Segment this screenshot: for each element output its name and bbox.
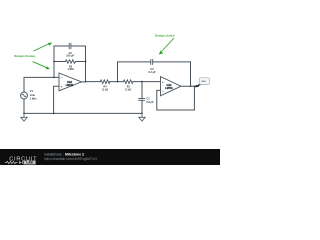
annotation arrow to C2 bbox=[34, 44, 49, 51]
capacitor C3 (top loop) bbox=[151, 59, 153, 65]
node OA2 output at bottom loop bbox=[194, 85, 196, 87]
svg-text:11 kΩ: 11 kΩ bbox=[125, 90, 131, 92]
resistor R3 bbox=[123, 80, 133, 84]
label R4 value bbox=[102, 85, 108, 91]
wire chain OA1 output to OA2 input bbox=[86, 81, 161, 83]
node feedback resistor left bbox=[53, 61, 55, 63]
svg-text:100 µF: 100 µF bbox=[66, 55, 74, 58]
wire feedback top (capacitor branch) bbox=[54, 45, 86, 47]
voltage source V1 bbox=[21, 92, 28, 99]
wire OA2 inverting input feedback loop bbox=[157, 86, 195, 110]
node rail left bbox=[23, 113, 25, 115]
label C2 value bbox=[66, 52, 74, 58]
label R2 value bbox=[67, 66, 73, 72]
svg-text:0.2 µF: 0.2 µF bbox=[148, 71, 156, 74]
label R3 value bbox=[125, 86, 131, 91]
annotation: left green note "Design choices" bbox=[14, 43, 52, 70]
footer CircuitLab logo bbox=[5, 157, 38, 165]
resistor R2 (feedback) bbox=[66, 60, 76, 63]
label C3 value bbox=[148, 68, 156, 74]
svg-text:Design choices: Design choices bbox=[14, 54, 36, 58]
capacitor C1 (to ground) bbox=[138, 98, 145, 100]
node at feedback/input junction bbox=[53, 77, 55, 79]
ground (right, under C1) bbox=[139, 113, 145, 121]
svg-text:1 kHz: 1 kHz bbox=[30, 96, 37, 100]
svg-text:11 kΩ: 11 kΩ bbox=[102, 90, 108, 92]
wire bottom ground rail bbox=[24, 112, 142, 114]
node feedback resistor right bbox=[85, 61, 87, 63]
wire OA2 output bbox=[181, 85, 199, 87]
node OA1 output junction bbox=[85, 81, 87, 83]
wire C3 loop right vertical to output bbox=[190, 62, 192, 86]
wire node C down to C1 bbox=[141, 82, 143, 99]
annotation arrow to R2 bbox=[33, 62, 47, 68]
svg-text:0.8 µF: 0.8 µF bbox=[146, 101, 154, 104]
node C (R3 / C1 / OA2 input) bbox=[141, 81, 143, 83]
op-amp OA1 bbox=[59, 73, 82, 91]
node B (between R4 and R3) bbox=[117, 81, 119, 83]
wire node B up to C3 loop bbox=[117, 62, 119, 82]
ground (left, under V1) bbox=[21, 113, 27, 121]
node OA2 output at top loop bbox=[190, 85, 192, 87]
wire V1 top to OA1 inverting input bbox=[24, 77, 59, 92]
svg-text:sine: sine bbox=[30, 93, 36, 97]
wire feedback right vertical bbox=[85, 46, 87, 82]
wire feedback resistor branch bbox=[54, 61, 86, 63]
svg-text:http://circuitlab.com/c6r9t7xg: http://circuitlab.com/c6r9t7xg8d77z3 bbox=[44, 157, 97, 161]
wire C3 top loop bbox=[118, 61, 191, 63]
svg-text:LAB: LAB bbox=[26, 161, 33, 165]
node rail at OA1 + bbox=[53, 113, 55, 115]
node rail right bbox=[141, 113, 143, 115]
wire C1 bottom to rail bbox=[141, 100, 143, 113]
wire feedback left vertical bbox=[53, 46, 55, 77]
op-amp OA2 bbox=[161, 77, 182, 96]
node junction dots bbox=[23, 61, 195, 115]
capacitor C2 (feedback) bbox=[69, 43, 71, 49]
svg-text:1 MΩ: 1 MΩ bbox=[67, 68, 73, 71]
wire OA1 output bbox=[82, 81, 86, 83]
svg-text:Design choice: Design choice bbox=[155, 34, 175, 38]
label C1 value bbox=[146, 98, 154, 104]
svg-text:LM741: LM741 bbox=[66, 84, 74, 87]
svg-text:LM741: LM741 bbox=[165, 87, 173, 90]
svg-text:V1: V1 bbox=[30, 89, 34, 93]
wire OA1 noninverting input to rail bbox=[54, 86, 59, 113]
svg-text:nataliebode : Milestone 2: nataliebode : Milestone 2 bbox=[44, 152, 84, 156]
annotation: right green note "Design choice" bbox=[155, 34, 175, 55]
label V1 value bbox=[30, 89, 37, 100]
scope probe flag at output bbox=[195, 78, 210, 88]
footer bar bbox=[0, 149, 220, 165]
annotation arrow to C3 bbox=[162, 38, 175, 52]
wire V1 bottom to ground rail bbox=[23, 99, 25, 113]
resistor R4 bbox=[100, 80, 110, 84]
